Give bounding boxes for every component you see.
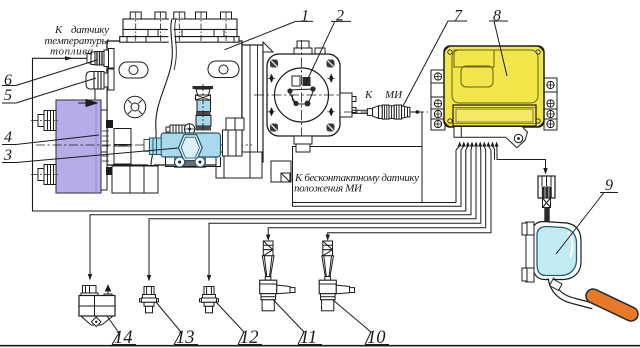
leader label 13 (156, 302, 199, 345)
ECU connector pins (458, 142, 499, 147)
center mechanism (292, 76, 300, 86)
bottom sheet line (0, 345, 640, 347)
ECU left bracket (431, 70, 445, 130)
neck with cross (543, 198, 551, 208)
shaft to connector (352, 110, 368, 113)
fitting 5 (86, 69, 114, 90)
svg-text:14: 14 (114, 328, 133, 348)
valve hexagon (179, 135, 203, 161)
svg-text:10: 10 (367, 328, 386, 348)
left plug lower (31, 165, 58, 185)
connector 7 (K MI plug) (367, 105, 410, 119)
valve bottom flange (166, 157, 221, 167)
wire to pedal unit (495, 149, 546, 170)
bolt stems (136, 12, 226, 42)
svg-text:МИ: МИ (384, 89, 403, 101)
svg-text:4: 4 (4, 129, 12, 146)
corner screw holes (270, 60, 335, 132)
wire to sensor 10 (328, 150, 491, 236)
wire: position sensor (box left) (293, 150, 462, 206)
mounting bracket (526, 222, 534, 282)
drive flange 2 (square plate) (254, 40, 356, 152)
right output block (340, 93, 352, 117)
pedal arm fitting (550, 279, 563, 291)
pedal arm (551, 278, 593, 306)
orange pedal pad (593, 296, 631, 314)
left plug upper (31, 111, 58, 131)
leader label 9 (556, 193, 618, 255)
leader label 1 (224, 21, 313, 49)
plug connector (538, 176, 555, 198)
top flange band 1 (123, 19, 237, 30)
svg-text:12: 12 (240, 328, 259, 348)
svg-text:К: К (364, 89, 373, 101)
ECU connector band (453, 105, 536, 126)
valve centerline (36, 144, 252, 146)
svg-text:топлива: топлива (50, 46, 94, 58)
leader label 7 (403, 21, 467, 106)
wire: connector 7 loop (422, 150, 456, 203)
ridged piece left of stack (166, 124, 195, 134)
svg-text:3: 3 (3, 147, 12, 164)
wire from connector 7 to box (410, 112, 422, 203)
oval boss right (208, 61, 239, 78)
sensor 10 (injector) (319, 241, 354, 311)
pump bottom right foot (216, 152, 262, 178)
bolt 1 (130, 12, 141, 19)
bottom foot of flange (294, 136, 312, 144)
leader label 12 (216, 302, 263, 345)
wire: frame loop to fuel temperature sensor (33, 58, 466, 211)
pump lower left foot (112, 166, 158, 193)
valve bottom dark recess (174, 157, 206, 168)
top flange band 2 (123, 30, 237, 37)
svg-text:7: 7 (454, 8, 463, 25)
svg-text:8: 8 (493, 8, 501, 25)
big circle (275, 68, 329, 122)
black square nub upper (106, 120, 113, 128)
accelerator pedal unit 9 (522, 176, 631, 314)
bolt 5 (221, 12, 232, 19)
block under flange 2 (271, 161, 291, 182)
leader label 14 (107, 316, 136, 345)
ECU lid (452, 50, 538, 103)
dark lower plug (544, 208, 549, 225)
valve bracket blocks (114, 129, 131, 145)
oval boss left (119, 62, 148, 78)
valve right block (223, 130, 243, 156)
leader label 6 (2, 60, 97, 86)
leader label 3 (2, 148, 178, 163)
edge star marks (268, 75, 335, 116)
sensor 14 (relay) (79, 286, 115, 327)
leader label 10 (333, 300, 389, 345)
leader label 5 (2, 78, 96, 103)
left strip of body (95, 87, 107, 190)
svg-text:9: 9 (605, 177, 613, 194)
wire to sensor 11 (268, 150, 486, 236)
arrow on temp sensor wire (65, 56, 74, 60)
bolt 4 (196, 12, 207, 19)
svg-text:5: 5 (4, 87, 12, 104)
leader label 11 (274, 300, 323, 345)
pin stubs to wires (456, 146, 497, 150)
fitting stack above valve (193, 84, 214, 138)
round boss (124, 96, 145, 117)
cyan sensor body (537, 227, 577, 276)
wire to sensor 13 (149, 150, 476, 277)
sensor 12 (200, 287, 219, 313)
bolt 2 (155, 12, 166, 19)
bolt 3 (174, 12, 185, 19)
fuel temperature sensor fitting 6 (87, 49, 114, 69)
pump main body 1 (95, 12, 291, 193)
svg-text:11: 11 (300, 328, 317, 348)
ECU 8 (yellow box) (444, 46, 544, 127)
leader label 2 (305, 21, 351, 85)
top flange band 3 (120, 37, 239, 43)
sensor 13 (140, 287, 159, 313)
leader label 8 (489, 21, 508, 76)
rear flange of pump (242, 45, 263, 162)
dosing valve 3 (blue) (144, 118, 244, 168)
svg-text:положения МИ: положения МИ (294, 183, 363, 195)
black square nub lower (106, 167, 113, 175)
housing (533, 222, 581, 280)
svg-text:13: 13 (176, 328, 195, 348)
svg-text:1: 1 (301, 8, 309, 25)
text box: to contactless position sensor (293, 147, 423, 203)
ECU right bracket (544, 78, 557, 130)
wire to sensor 14 (90, 150, 471, 276)
wire to sensor 12 (209, 150, 481, 277)
ECU lower connector housing (454, 127, 528, 148)
sensor 11 (injector) (260, 241, 295, 311)
svg-text:2: 2 (336, 8, 344, 25)
corner screws (444, 46, 544, 127)
leader label 4 (2, 135, 99, 145)
black arrow on top of block (78, 100, 97, 107)
valve left cylinder (149, 138, 161, 155)
fuel heater block 4 (purple) (31, 100, 101, 194)
valve bottom bolts (175, 157, 185, 167)
centerlines (301, 40, 303, 148)
casting parting curve (151, 19, 172, 165)
